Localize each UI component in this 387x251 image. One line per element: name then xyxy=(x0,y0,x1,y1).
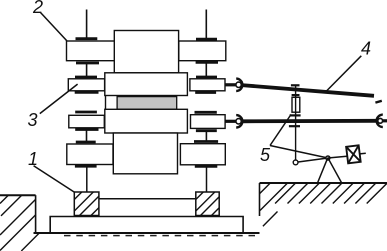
leader line 5b to lever pivot xyxy=(270,146,328,159)
svg-text:3: 3 xyxy=(28,110,38,130)
anchor block 1 xyxy=(74,192,99,216)
upper universal joint circle xyxy=(236,82,241,87)
right bottom bearing box row4 xyxy=(180,144,225,165)
lower spindle xyxy=(242,119,377,123)
baseplate bottom line xyxy=(34,232,260,234)
right ground hatching xyxy=(260,183,387,226)
anchor block 2 hatching xyxy=(196,192,219,216)
lower universal joint circle xyxy=(236,119,241,124)
lower spindle stub xyxy=(225,120,236,123)
upper universal joint crescent xyxy=(236,79,242,91)
top screw right xyxy=(205,10,207,40)
hanger tick 4 xyxy=(289,125,300,127)
upper spindle stub xyxy=(225,83,236,86)
turnbuckle inner rod xyxy=(295,97,297,112)
flange below right box2 xyxy=(195,91,216,94)
left roll-neck bearing box row3 xyxy=(69,115,105,128)
leader line to anchor block 1 xyxy=(34,166,75,192)
left roll-neck bearing box row2 xyxy=(68,79,104,91)
shaft left between row1-row2 xyxy=(86,63,88,77)
flange below left box1 xyxy=(76,62,99,65)
left ground surface xyxy=(0,194,36,196)
leader line to top screw flange xyxy=(41,13,67,41)
anchor rod left xyxy=(86,166,88,192)
valve body xyxy=(346,145,361,163)
right universal joint crescent xyxy=(377,115,383,127)
left screw-down bearing box row1 xyxy=(67,41,115,61)
hanger tick 2 xyxy=(292,94,300,96)
hanger tick 3 xyxy=(290,114,301,116)
flange below right box1 xyxy=(196,61,218,64)
lower universal joint crescent xyxy=(236,115,242,127)
upper spindle xyxy=(242,85,375,96)
upper roll xyxy=(105,73,188,96)
hanger top tick xyxy=(291,84,300,86)
svg-text:1: 1 xyxy=(28,149,38,169)
flange above left box4 xyxy=(76,141,96,144)
anchor block 2 xyxy=(196,192,219,216)
upper spindle end dash xyxy=(375,101,381,103)
hanger end eye xyxy=(293,160,298,165)
anchor block 1 hatching xyxy=(74,192,99,216)
shaft left between row3-row4 xyxy=(86,130,88,143)
lower roll xyxy=(105,109,188,133)
top screw left flange xyxy=(76,37,98,40)
flange below right box3 xyxy=(196,129,217,132)
flange below right box4 xyxy=(195,165,218,168)
flange above right box4 xyxy=(194,140,218,143)
flange below left box2 xyxy=(75,91,99,94)
anchor rod right xyxy=(206,166,208,192)
pivot xyxy=(326,156,330,160)
foundation dashes xyxy=(64,235,255,237)
flange below left box3 xyxy=(75,128,98,131)
shaft right between row1-row2 xyxy=(205,62,207,77)
leader line to left bearing box2 xyxy=(40,84,78,114)
right spindle stub xyxy=(383,119,387,122)
turnbuckle body xyxy=(292,97,300,112)
left ground edge xyxy=(35,195,37,233)
valve right stub xyxy=(360,152,366,155)
flange above right box2 xyxy=(196,76,217,79)
rail between anchor blocks xyxy=(99,198,196,200)
hanger rod xyxy=(295,85,297,162)
right roll-neck bearing box row3 xyxy=(191,115,226,129)
flange above left box2 xyxy=(75,76,97,79)
left ground hatching xyxy=(0,195,39,251)
right ground edge xyxy=(259,183,261,216)
right roll-neck bearing box row2 xyxy=(190,79,225,91)
baseplate xyxy=(50,217,243,234)
lever to valve xyxy=(328,156,347,158)
flange below left box4 xyxy=(75,165,97,168)
svg-text:4: 4 xyxy=(361,38,371,58)
flange above right box3 xyxy=(195,111,217,114)
right screw-down bearing box row1 xyxy=(179,41,226,61)
shaft right between row3-row4 xyxy=(205,131,207,142)
flange above left box3 xyxy=(75,111,97,114)
right universal joint circle xyxy=(378,118,383,123)
link rod from hanger eye to pivot xyxy=(298,158,328,162)
top screw left xyxy=(86,10,88,39)
bottom chock (central box) xyxy=(113,133,177,174)
workpiece (grey strip) xyxy=(117,97,177,110)
tripod leg left xyxy=(318,158,328,183)
svg-text:5: 5 xyxy=(260,145,271,165)
leader line to upper spindle xyxy=(326,56,361,92)
tripod leg right xyxy=(328,158,342,183)
top chock (central box) xyxy=(114,31,178,73)
inter-roll left edge connector xyxy=(105,96,107,110)
left bottom bearing box row4 xyxy=(67,144,113,165)
top screw right flange xyxy=(196,38,217,41)
right ground surface xyxy=(260,182,387,184)
leader line 5a to hanger xyxy=(270,115,291,146)
